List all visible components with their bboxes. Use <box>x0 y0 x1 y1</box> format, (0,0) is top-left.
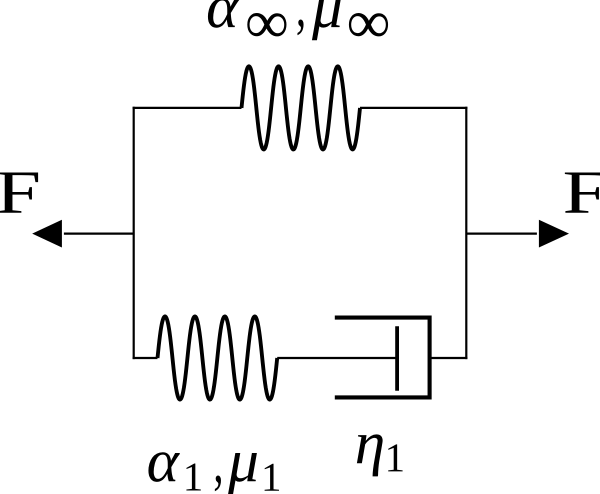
dashpot eta_1 cylinder <box>335 318 430 398</box>
force arrow F right: shaft <box>466 233 537 235</box>
wire: frame right vertical <box>465 107 467 359</box>
subscript infinity of alpha <box>247 13 286 36</box>
label mu_infinity <box>312 0 341 40</box>
label alpha_1 <box>148 452 179 482</box>
spring alpha_inf,mu_inf (top branch) <box>242 66 361 149</box>
wire: bottom middle (spring to dashpot piston) <box>277 357 397 359</box>
wire: top-right horizontal (spring to frame) <box>360 107 467 109</box>
wire: top-left horizontal (frame to spring) <box>133 107 242 109</box>
force arrow F left: head <box>32 220 62 248</box>
label alpha_infinity <box>208 0 239 28</box>
force arrow F right: head <box>539 220 569 248</box>
wire: bottom-left horizontal (frame to spring) <box>133 357 158 359</box>
comma in top label <box>297 19 303 35</box>
dashpot eta_1 piston plate <box>395 326 399 391</box>
label eta_1 <box>357 434 383 476</box>
subscript 1 of mu <box>265 464 279 491</box>
label F (right force) <box>565 172 600 212</box>
label mu_1 <box>228 453 257 494</box>
spring alpha_1,mu_1 (bottom branch) <box>158 316 278 399</box>
wire: frame left vertical <box>133 107 135 359</box>
subscript 1 of alpha <box>186 463 200 490</box>
force arrow F left: shaft <box>64 233 134 235</box>
subscript 1 of eta <box>388 444 402 471</box>
label F (left force) <box>0 172 38 212</box>
subscript infinity of mu <box>349 13 388 36</box>
comma in bottom label <box>215 475 221 491</box>
wire: dashpot to right frame <box>430 357 468 359</box>
